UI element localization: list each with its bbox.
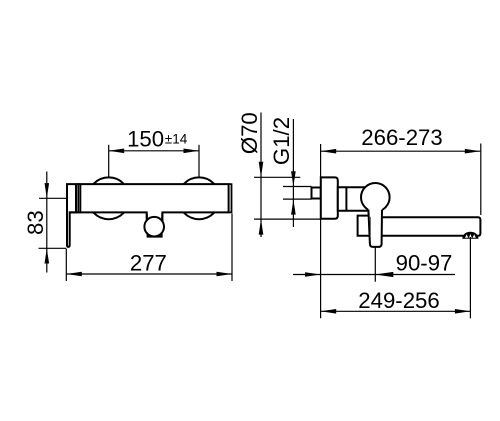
- svg-text:277: 277: [130, 251, 167, 276]
- arrows 249-256: [321, 309, 337, 314]
- arrow at lever (points left): [375, 272, 393, 277]
- dimension 83 vertical line: [46, 172, 48, 273]
- svg-text:266-273: 266-273: [361, 125, 442, 150]
- spout base collar (side): [358, 216, 371, 236]
- arrow at wall (points right): [305, 272, 321, 277]
- Ø70 arrows: [259, 162, 264, 178]
- 83 arrow down (top): [45, 183, 50, 198]
- arrow left 150: [109, 149, 125, 154]
- G1/2 arrows: [291, 171, 296, 186]
- lever ball: [361, 183, 390, 212]
- lever blade (front view): [67, 184, 76, 247]
- 83 arrow up (bottom): [45, 248, 50, 263]
- 83 top tick: [39, 197, 66, 199]
- spout outlet circle (front view): [144, 217, 164, 237]
- escutcheon (side): [321, 177, 338, 218]
- dimension 277 ext line right: [231, 214, 233, 282]
- body ring line: [345, 187, 347, 211]
- lever blade outline (side): [368, 210, 382, 247]
- Ø70 ticks: [254, 176, 300, 178]
- lever blade fill (side): [368, 208, 382, 246]
- body top edge connector left: [76, 183, 80, 185]
- escutcheon circle left: [88, 177, 130, 219]
- wall extension line: [320, 144, 322, 318]
- dimension 150 ext line right: [198, 145, 200, 177]
- spout tube (side): [369, 217, 480, 236]
- dimension 277 ext line left: [65, 249, 67, 282]
- dimension line 249-256: [321, 310, 471, 312]
- 83 bottom tick: [39, 247, 67, 249]
- G1/2 dimension line: [292, 119, 294, 227]
- svg-text:G1/2: G1/2: [269, 117, 294, 165]
- escutcheon circle right: [178, 177, 220, 219]
- svg-text:90-97: 90-97: [396, 250, 453, 275]
- arrows 266-273: [321, 149, 337, 154]
- dimension line 277: [66, 273, 232, 275]
- svg-text:83: 83: [23, 210, 48, 235]
- body left cap line: [77, 184, 79, 212]
- spout base hidden edge: [369, 217, 371, 235]
- nipple: [312, 188, 321, 199]
- Ø70 dimension line: [260, 113, 262, 238]
- body (front view, with spout notch): [80, 184, 228, 228]
- svg-text:150: 150: [127, 127, 164, 152]
- G1/2 nipple ticks: [283, 186, 312, 188]
- svg-text:Ø70: Ø70: [237, 112, 262, 154]
- body tube (side): [338, 187, 369, 211]
- outlet extension line: [469, 237, 471, 318]
- dimension 266-273 right ext line: [480, 144, 482, 216]
- aerator bump: [462, 232, 478, 239]
- body bottom edge connector left: [70, 211, 81, 213]
- svg-text:±14: ±14: [165, 131, 188, 146]
- lever extension line: [374, 248, 376, 282]
- dimension 150 ext line left: [108, 145, 110, 177]
- arrow right 277: [217, 272, 233, 277]
- dimension line 150: [109, 150, 199, 152]
- dimension line 266-273: [321, 150, 481, 152]
- body right end cap: [229, 184, 232, 212]
- arrow right 150: [184, 149, 200, 154]
- svg-text:249-256: 249-256: [358, 288, 439, 313]
- dimension line 90-97: [293, 274, 455, 276]
- arrow left 277: [66, 272, 82, 277]
- spout tab (front view): [147, 213, 163, 237]
